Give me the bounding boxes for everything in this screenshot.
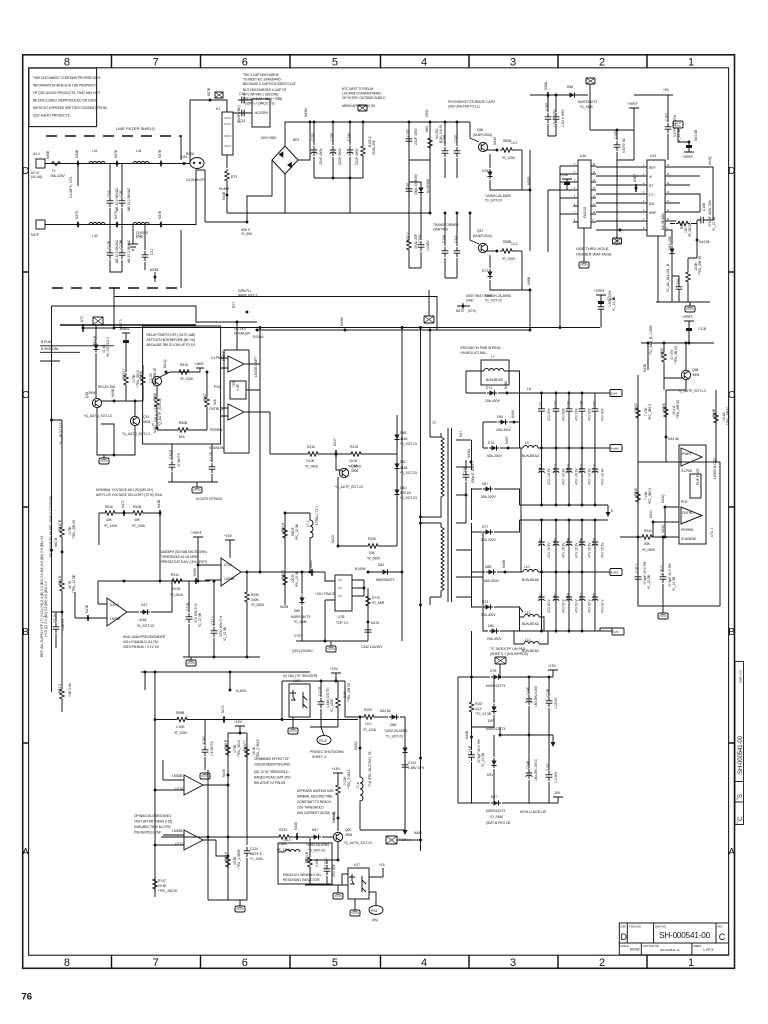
svg-text:N45Q: N45Q (354, 741, 358, 750)
svg-text:R102 2: R102 2 (406, 232, 410, 243)
svg-text:(SMT-B PKG OK: (SMT-B PKG OK (486, 821, 512, 825)
bridge BR1 (272, 146, 298, 174)
note bias precision (123, 635, 166, 649)
svg-text:D64 B: D64 B (93, 335, 97, 345)
svg-text:GROUND IN PAIR W REAL: GROUND IN PAIR W REAL (460, 346, 501, 350)
svg-text:C744: C744 (442, 135, 446, 143)
svg-text:47U -16 9V: 47U -16 9V (547, 468, 551, 485)
svg-text:3906: 3906 (692, 373, 700, 377)
svg-text:*C_12 0B: *C_12 0B (612, 296, 616, 311)
junction N301 (429, 121, 432, 124)
inductor L12 (514, 631, 548, 644)
svg-text:Q57: Q57 (477, 229, 483, 233)
svg-text:*Q_AUTN_SOT-23: *Q_AUTN_SOT-23 (344, 841, 372, 845)
svg-text:R206: R206 (662, 403, 666, 411)
svg-text:WITHOUT EXPRESS WRITTEN CONSEN: WITHOUT EXPRESS WRITTEN CONSENT FROM (33, 106, 107, 110)
svg-text:+VREF: +VREF (594, 289, 605, 293)
+VREF flag c11b (596, 295, 606, 328)
transformer coupling caps C744 C740 (445, 122, 457, 178)
svg-text:C17B: C17B (107, 240, 111, 249)
svg-text:CNTRL: CNTRL (682, 511, 693, 515)
+15V flag (225, 540, 235, 548)
svg-text:OF QSC AUDIO PRODUCTS, THAT MA: OF QSC AUDIO PRODUCTS, THAT MAY NOT (33, 91, 100, 95)
resistor R47 bottom left (153, 877, 157, 891)
junction N40B (101, 400, 126, 402)
svg-text:D80: D80 (488, 624, 494, 628)
junction N26A (547, 94, 550, 97)
junction on left rail feed (75, 592, 98, 618)
svg-text:THE 3-CAP DISCHARGE: THE 3-CAP DISCHARGE (243, 73, 280, 77)
junction N4466 (696, 239, 699, 242)
junction N448 (296, 836, 299, 839)
resistor R232 (125, 371, 127, 372)
transistor Q32 (152, 376, 161, 385)
svg-text:7: 7 (153, 57, 159, 69)
svg-text:47U -16 9V: 47U -16 9V (575, 468, 579, 485)
svg-text:N-DCRT BYPASS: N-DCRT BYPASS (196, 497, 223, 501)
svg-text:*C_12 0B: *C_12 0B (481, 752, 485, 767)
svg-text:*TRL_2W 0S: *TRL_2W 0S (347, 682, 351, 702)
svg-text:47U 63 V: 47U 63 V (547, 598, 551, 613)
gnd box comparator (192, 487, 202, 493)
svg-text:(274): (274) (468, 309, 476, 313)
junction N33B (154, 272, 156, 282)
svg-text:LM33B: LM33B (224, 577, 235, 581)
svg-text:4: 4 (421, 57, 427, 69)
svg-text:50A-200V: 50A-200V (487, 454, 502, 458)
svg-text:C1B 1: C1B 1 (635, 564, 639, 573)
wire neutral to bridge left (205, 170, 247, 222)
svg-text:NOMINAL VOLTAGE ADJ (SQUELCH): NOMINAL VOLTAGE ADJ (SQUELCH) (96, 488, 153, 492)
junction N423 (338, 477, 366, 546)
svg-text:D77: D77 (482, 269, 488, 273)
note appears limiting (297, 789, 334, 815)
svg-text:D: D (621, 932, 628, 942)
svg-text:C16A: C16A (567, 592, 571, 601)
resistor R507 vertical (205, 395, 209, 409)
svg-text:40K: 40K (134, 518, 141, 522)
svg-text:PH2: PH2 (214, 385, 221, 389)
wire filter to relay top (184, 100, 222, 164)
rail y505 mid (520, 504, 609, 506)
svg-text:D60: D60 (294, 609, 300, 613)
diode D6D (394, 487, 399, 497)
outer rect (638, 462, 720, 606)
svg-text:10.0K: 10.0K (349, 459, 358, 463)
junction N421 (311, 571, 314, 574)
svg-text:C17W: C17W (119, 239, 123, 249)
X-caps C13 C14 between lines (109, 164, 111, 225)
warranty diode D62 (368, 571, 402, 573)
wire y573 feed (260, 571, 325, 573)
IC U7B TOP-210 (335, 575, 352, 611)
junction N37B2 (160, 162, 163, 165)
wire bus y325 main (60, 324, 196, 326)
svg-text:N26A: N26A (544, 81, 548, 90)
svg-text:SH-000541-00: SH-000541-00 (738, 735, 744, 774)
svg-text:*TRL_2 0615: *TRL_2 0615 (347, 769, 351, 789)
svg-text:A/W CURRENT 26.00A: A/W CURRENT 26.00A (297, 811, 331, 815)
svg-text:*R_1206: *R_1206 (174, 731, 187, 735)
wire y719 (155, 719, 358, 721)
svg-text:WARRANTY: WARRANTY (376, 578, 396, 582)
svg-text:R202: R202 (660, 348, 664, 356)
junction N45Q2 (337, 817, 340, 820)
svg-text:BR1: BR1 (293, 138, 300, 142)
svg-text:R216: R216 (307, 445, 315, 449)
svg-text:R208: R208 (634, 488, 638, 496)
svg-text:*TRL_2B 0S: *TRL_2B 0S (674, 345, 678, 364)
op-amp U17.2 (228, 404, 244, 420)
svg-text:N403: N403 (153, 425, 157, 433)
svg-text:330p 4X 600V: 330p 4X 600V (414, 173, 418, 195)
svg-text:SOUNDW: SOUNDW (209, 446, 225, 450)
svg-text:LINE FILTER SHIELD: LINE FILTER SHIELD (116, 126, 155, 131)
svg-text:THIS DOCUMENT CONTAINS PROPRIE: THIS DOCUMENT CONTAINS PROPRIETARY (33, 76, 102, 80)
svg-text:*R_1206: *R_1206 (502, 156, 515, 160)
svg-text:MURS140T3: MURS140T3 (578, 100, 597, 104)
svg-text:AIR FLUX VOLTAGE ON LIGHT (70: AIR FLUX VOLTAGE ON LIGHT (70 HI) RAIL (96, 493, 163, 497)
resistor R23 right (714, 411, 718, 425)
svg-text:+4B0Z: +4B0Z (194, 362, 204, 366)
right rail x368 (367, 588, 369, 641)
zone numbers top (64, 57, 694, 69)
svg-text:C33: C33 (239, 119, 245, 123)
zone letters left (22, 166, 29, 858)
note combined effect (254, 757, 291, 785)
svg-text:C1?2: C1?2 (593, 401, 597, 409)
wire bridge in left (227, 174, 285, 213)
svg-text:203.9 PM BUD + 0.1V 1/3: 203.9 PM BUD + 0.1V 1/3 (123, 645, 159, 649)
svg-text:C1B7: C1B7 (665, 113, 669, 121)
junction N446 (227, 774, 230, 777)
svg-text:RELAY-39A: RELAY-39A (98, 385, 116, 389)
wires opamp U21 (198, 545, 260, 580)
svg-text:53K: 53K (644, 542, 651, 546)
resistor R310 (170, 579, 184, 583)
svg-text:47U -16 9V: 47U -16 9V (562, 468, 566, 485)
svg-text:C156: C156 (330, 133, 334, 141)
svg-text:HIGH-U-NGR-UR: HIGH-U-NGR-UR (520, 810, 547, 814)
svg-text:U7B: U7B (338, 615, 345, 619)
C11B vref cluster mid right (594, 289, 616, 328)
wire y837 (161, 836, 334, 838)
gnd box top210 (326, 646, 336, 652)
svg-text:D9?: D9? (491, 795, 497, 799)
svg-text:*R_0605: *R_0605 (367, 557, 380, 561)
diode D77 (490, 251, 522, 290)
svg-text:C131: C131 (539, 401, 543, 409)
svg-text:+5V/B10 L07 BAL: +5V/B10 L07 BAL (460, 351, 486, 355)
svg-text:*C_12 0B: *C_12 0B (198, 612, 202, 627)
svg-text:+15V: +15V (548, 664, 557, 668)
svg-text:Q31: Q31 (143, 415, 149, 419)
svg-text:C16B: C16B (702, 202, 706, 211)
junction C+0B (52, 420, 63, 510)
transistor Q57 (478, 243, 487, 252)
svg-text:R232.7: R232.7 (122, 368, 126, 379)
caps on -15 rail (529, 735, 549, 803)
transistor Q31 (130, 416, 139, 425)
vertical rail x420 (420, 328, 422, 852)
svg-text:50A-200V: 50A-200V (481, 538, 496, 542)
zone numbers bottom (64, 957, 694, 969)
svg-text:(UL,9A): (UL,9A) (31, 175, 42, 179)
svg-text:N73: N73 (80, 316, 84, 322)
inductor L41 (133, 162, 149, 164)
T2 primary winding bottom (441, 523, 444, 597)
gnd box bottom mid (235, 906, 245, 912)
svg-text:TRANSFORMER: TRANSFORMER (433, 223, 459, 227)
svg-text:FLIP-FLOP: FLIP-FLOP (696, 468, 700, 485)
op-amp A (681, 448, 702, 466)
svg-text:C153: C153 (406, 129, 410, 137)
wires U16-U15 interconnect (596, 167, 642, 212)
cap C107 (302, 640, 368, 642)
inductor L42 (133, 223, 149, 225)
svg-text:*C_12 0B: *C_12 0B (712, 216, 716, 231)
svg-text:53K: 53K (369, 551, 376, 555)
wire bus y330 extension (437, 329, 530, 331)
svg-text:MINIMAL SECOND TIME: MINIMAL SECOND TIME (297, 795, 333, 799)
svg-text:R24 2: R24 2 (281, 570, 285, 579)
wire x282 up to opto (281, 681, 283, 720)
svg-text:C152: C152 (311, 133, 315, 141)
resistor R150 (306, 452, 320, 456)
svg-text:D94: D94 (497, 415, 503, 419)
wire vref rail (667, 145, 669, 160)
svg-text:C72 1: C72 1 (211, 616, 215, 625)
svg-text:402-H GMA BLO--54.73V: 402-H GMA BLO--54.73V (123, 640, 159, 644)
svg-text:N40B: N40B (111, 388, 115, 397)
svg-text:10.0K: 10.0K (306, 459, 315, 463)
svg-text:U?21: U?21 (224, 563, 232, 567)
svg-text:N40B: N40B (502, 559, 506, 568)
junction N340 (496, 149, 499, 152)
svg-text:VI: VI (649, 175, 652, 179)
svg-text:47U 50V: 47U 50V (332, 863, 336, 877)
svg-text:*TRL_2W 0S: *TRL_2W 0S (698, 255, 702, 275)
+VREF flag right (684, 321, 694, 343)
svg-text:4148: 4148 (139, 618, 147, 622)
svg-text:47U 63V: 47U 63V (562, 407, 566, 421)
svg-text:GRN FLL: GRN FLL (238, 289, 252, 293)
wire bus y330 (257, 329, 437, 331)
svg-text:D7B: D7B (490, 669, 497, 673)
transistor Q5B (339, 468, 348, 477)
resistor R2327 (245, 745, 249, 759)
svg-text:R56 B: R56 B (224, 739, 228, 749)
svg-text:*C_1206: *C_1206 (330, 699, 334, 712)
wire Q57 collector from bus (470, 213, 479, 244)
svg-text:20A-400V: 20A-400V (487, 637, 502, 641)
svg-text:ONLY AFTER V-BIAS (+15): ONLY AFTER V-BIAS (+15) (134, 820, 172, 824)
svg-text:U74 .1: U74 .1 (710, 527, 714, 537)
svg-text:L12: L12 (525, 638, 531, 642)
svg-text:C146: C146 (526, 687, 530, 695)
svg-text:L32: L32 (92, 234, 98, 238)
svg-text:N452: N452 (414, 831, 422, 835)
svg-text:R50B: R50B (179, 421, 188, 425)
cap C721 (213, 581, 215, 657)
svg-text:PRI/SEC SHUTDOWN,: PRI/SEC SHUTDOWN, (310, 750, 345, 754)
svg-text:N41B: N41B (85, 604, 89, 613)
svg-text:47U 63 V: 47U 63 V (562, 598, 566, 613)
svg-text:LOCATED DOWNSTREAM: LOCATED DOWNSTREAM (342, 92, 381, 96)
junction N37B (116, 162, 119, 165)
svg-text:N44Q: N44Q (708, 156, 712, 165)
diode row y631 (483, 577, 520, 631)
IC U14 rect (679, 445, 706, 544)
svg-text:8: 8 (64, 957, 70, 969)
cap C342 (365, 626, 372, 636)
svg-text:APPEARS LIMITING HAS: APPEARS LIMITING HAS (297, 789, 334, 793)
svg-text:47U 63V: 47U 63V (547, 407, 551, 421)
svg-text:N44 66: N44 66 (699, 240, 710, 244)
svg-text:RESONANT INDUCTOR: RESONANT INDUCTOR (283, 878, 320, 882)
svg-text:R232 B: R232 B (58, 519, 62, 531)
cap C710 (55, 612, 57, 648)
svg-text:T1 A: T1 A (356, 781, 360, 789)
svg-text:240K: 240K (251, 598, 260, 602)
svg-text:R50 B: R50 B (58, 575, 62, 585)
svg-text:R?70: R?70 (372, 596, 380, 600)
T2 core (448, 428, 452, 602)
svg-text:CT: CT (649, 193, 653, 197)
svg-text:BE DISCLOSED, REPRODUCED OR US: BE DISCLOSED, REPRODUCED OR USED (33, 99, 98, 103)
svg-text:*Q_AUTP_SOT-23: *Q_AUTP_SOT-23 (158, 398, 162, 426)
svg-text:*D_SOT-23: *D_SOT-23 (386, 735, 403, 739)
svg-text:N44 4B: N44 4B (332, 811, 336, 823)
svg-text:R240: R240 (251, 593, 259, 597)
wire bus to snubber rails (409, 122, 430, 213)
small box flip-flop (230, 381, 246, 399)
vertical x458 (457, 677, 459, 803)
svg-text:47U 63V: 47U 63V (575, 407, 579, 421)
svg-text:A1-1: A1-1 (33, 152, 40, 156)
svg-text:2.49K: 2.49K (315, 858, 319, 867)
svg-text:D4U5L0AN: D4U5L0AN (661, 213, 665, 230)
vertical rail x402 (401, 328, 403, 642)
note NTC next to relay (342, 87, 386, 108)
svg-text:C194: C194 (676, 279, 680, 287)
svg-text:160-26V 160 C: 160-26V 160 C (534, 758, 538, 781)
left border vertical note (40, 535, 48, 657)
transistor Q30 (92, 398, 101, 407)
connector T-DIN (386, 836, 397, 844)
cap C153 (406, 135, 413, 145)
junction N30B (77, 162, 80, 165)
resistor R102 row2 (408, 213, 410, 238)
svg-text:D6?: D6? (312, 828, 318, 832)
op-amp B (681, 507, 702, 524)
svg-text:47U -16 9V: 47U -16 9V (588, 468, 592, 485)
junction N450 (195, 580, 198, 583)
svg-text:*TRL_12 0B: *TRL_12 0B (72, 574, 76, 593)
svg-text:TO MEET IEC STANDARD: TO MEET IEC STANDARD (243, 78, 281, 82)
svg-text:*R_1206: *R_1206 (132, 524, 145, 528)
svg-text:N41Q: N41Q (163, 359, 167, 368)
svg-text:+4B 2 0A: +4B 2 0A (68, 683, 72, 697)
svg-text:47U 63 V: 47U 63 V (575, 598, 579, 613)
svg-text:8%A: JUAN PRECISION/DER: 8%A: JUAN PRECISION/DER (123, 635, 166, 639)
svg-text:Q6A: Q6A (351, 464, 358, 468)
gnd box U17 (350, 910, 360, 916)
svg-text:C164: C164 (539, 593, 543, 601)
svg-text:C?07: C?07 (294, 634, 302, 638)
svg-text:(322)-220VAC: (322)-220VAC (292, 649, 313, 653)
svg-text:R209: R209 (368, 537, 376, 541)
svg-text:10A (2A RESISTOR) AND: 10A (2A RESISTOR) AND (254, 763, 291, 767)
diode D90 mid (472, 677, 495, 727)
svg-text:C17B: C17B (580, 537, 584, 546)
rail y393 right (520, 392, 611, 394)
resistor R2Q2 on x638 (636, 406, 640, 420)
wire cap bank top (314, 121, 362, 123)
svg-text:OP BIAS (SLOWED/GND): OP BIAS (SLOWED/GND) (134, 814, 171, 818)
svg-text:PS4: PS4 (371, 909, 377, 913)
svg-text:BECAUSE X-CAPS EXCEEDS 0.1UF: BECAUSE X-CAPS EXCEEDS 0.1UF (243, 82, 296, 86)
svg-text:NTC NEXT TO RELAY: NTC NEXT TO RELAY (342, 87, 374, 91)
T2 primary pin stubs (421, 437, 442, 605)
svg-text:N340: N340 (493, 137, 497, 145)
svg-text:4148: 4148 (400, 466, 408, 470)
svg-text:RMP: RMP (649, 211, 657, 215)
junction N33M (344, 329, 347, 332)
resistor R516a (177, 370, 191, 374)
U16 left rail join (559, 310, 561, 328)
junction N452 (419, 839, 422, 842)
wire y581 bus (98, 580, 210, 582)
svg-text:C162: C162 (202, 736, 206, 744)
connector 10-OHM-GPL (190, 158, 204, 169)
svg-text:N450: N450 (193, 568, 197, 576)
resistor R240 (245, 590, 249, 604)
svg-text:AC/GRN: AC/GRN (255, 111, 268, 115)
svg-text:C71B: C71B (186, 602, 190, 611)
rail x114 (113, 287, 115, 328)
svg-text:SHEET 4: SHEET 4 (312, 755, 326, 759)
svg-text:RT2: RT2 (231, 175, 237, 179)
svg-text:L6.2: L6.2 (284, 838, 291, 842)
svg-text:*TRL_2W 0S: *TRL_2W 0S (72, 519, 76, 539)
svg-text:+24V TRACE: +24V TRACE (315, 592, 336, 596)
svg-text:INFORMATION WHICH IS THE PROPE: INFORMATION WHICH IS THE PROPERTY (33, 84, 98, 88)
svg-text:TC TAPE/CPP LIM PAD: TC TAPE/CPP LIM PAD (490, 647, 526, 651)
inductor L32 (89, 223, 105, 225)
note 3-cap discharge (243, 73, 296, 106)
svg-text:BUN-BEAD: BUN-BEAD (522, 622, 540, 626)
svg-text:K1: K1 (216, 107, 220, 111)
svg-text:M-UR948: M-UR948 (426, 179, 430, 193)
svg-text:N44 46: N44 46 (668, 437, 679, 441)
diode D7B on +15 rail (472, 676, 554, 678)
svg-text:3: 3 (510, 957, 516, 969)
svg-text:N61 B: N61 B (54, 537, 58, 547)
svg-text:N301: N301 (425, 109, 429, 117)
svg-text:*D_SOT-23: *D_SOT-23 (400, 496, 417, 500)
resistor R241 (640, 535, 654, 539)
Y-caps C17B C17W below neutral (110, 225, 122, 273)
cap C739 row2 (409, 213, 421, 268)
svg-text:(0) 1N4 (TE TRIGGER): (0) 1N4 (TE TRIGGER) (283, 674, 317, 678)
diode rail x397 (396, 415, 398, 546)
resistor R151 (349, 452, 363, 456)
svg-text:PA2110: PA2110 (583, 207, 587, 218)
svg-text:*TRL_2W0S: *TRL_2W0S (726, 406, 730, 425)
svg-text:PWRF: PWRF (682, 452, 692, 456)
svg-text:2: 2 (599, 957, 605, 969)
